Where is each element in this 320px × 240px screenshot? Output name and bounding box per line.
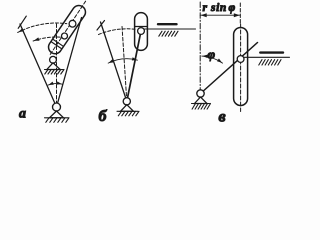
- support base + hatching (fig v): [192, 103, 210, 105]
- wire: right dashed extension line (fig v): [239, 3, 241, 24]
- middle support triangle (fig a): [47, 63, 60, 70]
- svg-text:в: в: [219, 108, 226, 125]
- wall bar (fig b): [158, 23, 177, 25]
- oscillation double-arrow arc (fig a): [48, 84, 62, 86]
- phi angle arc (fig v): [202, 56, 223, 63]
- wire: left extreme position line (fig b): [101, 22, 127, 101]
- arrowhead on inner arc (fig a): [34, 37, 40, 40]
- oscillation double-arrow arc (fig b): [108, 59, 137, 63]
- wire: left extreme position line (fig a): [20, 24, 57, 107]
- wheel rim chord (fig a): [53, 39, 63, 46]
- arrowhead on outer arc (fig a): [18, 28, 24, 32]
- hub circle upper (fig a): [69, 20, 76, 27]
- hub circle lower (fig a): [62, 33, 68, 39]
- svg-text:r sin: r sin: [203, 2, 227, 14]
- wall bar (fig v): [260, 51, 283, 53]
- horizontal rod to wall (fig v): [244, 56, 290, 58]
- svg-text:а: а: [19, 107, 26, 122]
- support triangle (fig v): [195, 97, 208, 104]
- wire: dashed swing arc (fig b): [98, 29, 135, 35]
- wheel rim chord (fig a): [51, 42, 61, 49]
- hub/hinge circle (fig v): [237, 56, 244, 63]
- middle support pin (fig a): [50, 56, 57, 63]
- pivot circle (fig b): [123, 98, 130, 105]
- figure a: inclined-wheel pendulum: [18, 1, 86, 122]
- wire: tick at left line end (fig a): [18, 16, 26, 28]
- support base + hatching (fig b): [117, 110, 138, 112]
- wall hatching (fig v): [259, 60, 262, 65]
- middle support hatched block (fig a): [45, 69, 64, 71]
- pivot circle (fig v): [197, 90, 204, 97]
- arm from pivot to hub, extended (fig v): [201, 43, 258, 94]
- wheel dashed centerline (fig v): [240, 24, 242, 112]
- svg-text:б: б: [99, 108, 108, 125]
- wire: vertical centerline (fig a): [56, 24, 58, 107]
- bottom support base + hatching (fig a): [45, 117, 69, 119]
- wire: dashed equilibrium line (fig b): [122, 26, 127, 101]
- wheel rim chord (fig b): [135, 26, 148, 28]
- figure v: wheel on inclined arm with r*sin(phi) dimension: [192, 2, 290, 125]
- wire: dash-dot vertical reference line (fig v): [199, 2, 201, 90]
- wheel axis dashed line (fig a): [50, 1, 85, 54]
- pendulum rod (fig b): [127, 31, 141, 101]
- wall hatching (fig b): [159, 31, 162, 36]
- wire: right position line (fig a): [57, 18, 82, 108]
- wheel (capsule, fig b): [135, 13, 148, 51]
- bottom support triangle (fig a): [50, 111, 64, 118]
- wire: tick at left line end (fig b): [97, 21, 105, 31]
- bottom pivot circle (fig a): [53, 103, 61, 111]
- horizontal rod to wall (fig b): [144, 28, 195, 30]
- wire: outer dashed swing arc (fig a): [18, 23, 67, 32]
- wire: inner dashed swing arc (fig a): [33, 37, 63, 41]
- svg-text:φ: φ: [229, 2, 236, 14]
- dimension line with arrows: [200, 14, 240, 16]
- hub/hinge circle (fig b): [138, 28, 145, 35]
- svg-text:φ: φ: [208, 47, 216, 62]
- wheel (capsule, fig v): [234, 28, 248, 106]
- support triangle (fig b): [121, 105, 134, 112]
- wheel (capsule, fig a): [49, 6, 86, 54]
- figure b: vertical-wheel pendulum: [97, 13, 196, 125]
